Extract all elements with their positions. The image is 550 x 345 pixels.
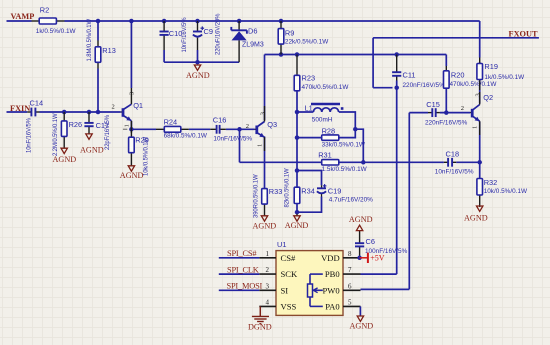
ground AGND under R34 xyxy=(285,216,309,230)
svg-text:PA0: PA0 xyxy=(325,302,340,312)
svg-text:390R/0.5%/0.1W: 390R/0.5%/0.1W xyxy=(254,174,260,218)
wire C15/PW0 vertical x=409.3 xyxy=(361,113,429,290)
capacitor C14 xyxy=(27,98,43,153)
svg-text:AGND: AGND xyxy=(349,215,373,224)
svg-text:10k/0.5%/0.1W: 10k/0.5%/0.1W xyxy=(143,137,149,176)
svg-text:C16: C16 xyxy=(213,115,227,124)
svg-text:AGND: AGND xyxy=(80,145,104,154)
svg-text:AGND: AGND xyxy=(350,321,374,330)
transistor Q3 xyxy=(246,106,277,151)
svg-text:5: 5 xyxy=(348,298,352,306)
node junctions on VAMP rail xyxy=(96,19,284,24)
potentiometer graphic inside U1 xyxy=(308,274,323,306)
svg-text:4: 4 xyxy=(266,298,270,306)
inductor L1 xyxy=(305,104,344,124)
ground AGND under C17 xyxy=(80,134,104,154)
svg-text:220nF/16V/5%: 220nF/16V/5% xyxy=(425,119,468,126)
svg-text:R24: R24 xyxy=(164,117,178,126)
wire jog to R31 row xyxy=(355,129,363,162)
svg-text:C19: C19 xyxy=(328,186,342,195)
svg-text:2: 2 xyxy=(461,105,464,112)
node junction R20 bottom xyxy=(444,110,449,115)
wire C11 bottom to PB0 (vertical x=396.7) xyxy=(361,81,397,275)
svg-text:R34: R34 xyxy=(301,187,315,196)
svg-text:33k/0.5%/0.1W: 33k/0.5%/0.1W xyxy=(322,141,366,148)
wire FXOUT net xyxy=(373,38,539,88)
node junction R34 bottom xyxy=(295,210,300,215)
svg-text:1: 1 xyxy=(123,124,130,127)
wire Q2 collector xyxy=(479,62,481,104)
ground AGND under R26 xyxy=(53,148,77,164)
wire SPI_CLK xyxy=(219,273,259,275)
resistor R31 xyxy=(318,150,367,173)
svg-text:R23: R23 xyxy=(302,74,316,83)
svg-text:470k/0.5%/0.1W: 470k/0.5%/0.1W xyxy=(450,81,498,88)
svg-text:SPI_CLK: SPI_CLK xyxy=(227,265,259,274)
wire R34 bottom xyxy=(296,204,298,214)
svg-text:DGND: DGND xyxy=(248,322,272,331)
transistor Q1 xyxy=(112,21,144,133)
port VAMP xyxy=(11,12,35,21)
svg-text:AGND: AGND xyxy=(253,221,277,230)
svg-text:500mH: 500mH xyxy=(312,116,333,123)
svg-text:1.8M/0.5%/0.1W: 1.8M/0.5%/0.1W xyxy=(87,19,93,62)
wire L1 left pin xyxy=(297,111,313,113)
svg-text:AGND: AGND xyxy=(120,171,144,180)
capacitor C19 (polarized) xyxy=(317,184,373,203)
wire R20 bottom pin xyxy=(445,88,447,112)
svg-text:C14: C14 xyxy=(30,98,44,107)
ground AGND under R33 xyxy=(253,216,277,231)
svg-text:220nF/16V/5%: 220nF/16V/5% xyxy=(403,82,446,89)
resistor R28 xyxy=(322,126,366,148)
wire C15 to Q2 base xyxy=(440,112,470,114)
pins U1 right (VDD,PB0,PW0,PA0) xyxy=(321,250,360,312)
svg-text:2: 2 xyxy=(246,123,249,130)
wire L1 right to R28 right xyxy=(339,112,356,138)
wire C19 top jog xyxy=(297,171,322,186)
svg-text:AGND: AGND xyxy=(464,213,488,222)
wire R28 left pin xyxy=(297,137,322,139)
wire rail to R19 (vertical x=479.7) xyxy=(479,21,481,58)
wire R31 right row to C18 xyxy=(339,161,444,163)
net label SPI_MOSI xyxy=(227,282,263,291)
node junction C16/Q3 base xyxy=(237,127,242,132)
svg-text:10nF/16V/5%: 10nF/16V/5% xyxy=(435,168,474,175)
wire Q1 emitter to R24/C16 row xyxy=(131,121,254,131)
svg-text:R33: R33 xyxy=(269,187,283,196)
capacitor C9 (polarized) xyxy=(193,13,221,62)
svg-text:SCK: SCK xyxy=(281,269,299,279)
svg-text:220uF/16V/20%: 220uF/16V/20% xyxy=(215,13,221,55)
svg-text:8: 8 xyxy=(348,250,352,258)
svg-text:1.5k/0.5%/0.1W: 1.5k/0.5%/0.1W xyxy=(322,166,368,173)
svg-text:3: 3 xyxy=(259,112,266,115)
wire R13 branch xyxy=(97,21,99,112)
svg-text:R28: R28 xyxy=(322,126,336,135)
svg-text:SPI_MOSI: SPI_MOSI xyxy=(227,282,263,291)
wire FXIN row xyxy=(7,111,121,113)
svg-text:R13: R13 xyxy=(102,46,116,55)
net label SPI_CLK xyxy=(227,265,259,274)
wire Q3 emitter branch xyxy=(264,137,266,189)
ground DGND at VSS xyxy=(248,306,272,331)
net label SPI_CS# xyxy=(227,249,257,258)
svg-text:U1: U1 xyxy=(277,240,286,249)
port FXIN xyxy=(10,104,30,113)
svg-text:10nF/16V/5%: 10nF/16V/5% xyxy=(27,117,33,153)
svg-text:FXOUT: FXOUT xyxy=(509,29,539,38)
svg-text:PW0: PW0 xyxy=(323,285,340,295)
svg-text:4.7uF/16V/20%: 4.7uF/16V/20% xyxy=(329,196,373,203)
svg-text:68k/0.5%/0.1W: 68k/0.5%/0.1W xyxy=(164,132,208,139)
svg-text:R19: R19 xyxy=(484,62,498,71)
resistor R20 xyxy=(444,66,498,88)
svg-text:2.2M/0.5%/0.1W: 2.2M/0.5%/0.1W xyxy=(53,113,59,156)
wire C18 to Q2 emitter xyxy=(456,161,480,163)
svg-text:3: 3 xyxy=(266,282,270,290)
svg-text:2: 2 xyxy=(266,266,270,274)
resistor R29 xyxy=(129,131,150,176)
node junction L1/R28 right xyxy=(353,127,358,132)
resistor R19 xyxy=(477,58,525,91)
capacitor C18 xyxy=(435,149,474,175)
wire cap ground rail xyxy=(164,61,239,63)
svg-text:6: 6 xyxy=(348,282,352,290)
node junction Q2 emitter row xyxy=(477,160,482,165)
node junction R31 right xyxy=(361,160,366,165)
svg-text:10nF/16V/5%: 10nF/16V/5% xyxy=(213,135,252,142)
svg-text:D6: D6 xyxy=(248,26,257,35)
svg-text:1k/0.5%/0.1W: 1k/0.5%/0.1W xyxy=(36,28,77,35)
resistor R9 xyxy=(278,21,329,55)
svg-text:10k/0.5%/0.1W: 10k/0.5%/0.1W xyxy=(484,188,528,195)
svg-text:L1: L1 xyxy=(305,104,313,113)
svg-text:AGND: AGND xyxy=(285,221,309,230)
capacitor C6 xyxy=(355,231,408,258)
wire VAMP top rail xyxy=(7,20,480,22)
svg-text:VAMP: VAMP xyxy=(11,12,35,21)
node junctions net A xyxy=(295,110,300,173)
svg-text:Q1: Q1 xyxy=(133,101,143,110)
op-amp U1 body xyxy=(276,240,343,315)
svg-text:PB0: PB0 xyxy=(325,269,340,279)
wire collector rail y=54.5 xyxy=(265,55,447,121)
wire SPI_MOSI xyxy=(219,289,259,291)
svg-text:82k/0.5%/0.1W: 82k/0.5%/0.1W xyxy=(285,168,291,207)
svg-text:AGND: AGND xyxy=(53,155,77,164)
svg-text:2: 2 xyxy=(112,104,115,111)
node junctions FXIN row xyxy=(62,110,100,115)
svg-text:C18: C18 xyxy=(446,149,460,158)
resistor R13 xyxy=(87,19,116,69)
wire C19 bottom jog xyxy=(297,197,322,213)
node junctions on y=54.5 rail xyxy=(279,52,399,57)
resistor R23 xyxy=(294,55,349,91)
svg-text:R20: R20 xyxy=(451,71,465,80)
svg-text:10nF/16V/5%: 10nF/16V/5% xyxy=(182,17,188,53)
node junction Q1 emitter xyxy=(129,127,134,132)
wire Q2 emitter down to R32 xyxy=(479,122,481,179)
wire mid vertical net A (R23/L1/R28/R34) xyxy=(296,91,298,187)
svg-text:C10: C10 xyxy=(169,29,183,38)
svg-text:VSS: VSS xyxy=(281,302,297,312)
svg-text:C6: C6 xyxy=(366,237,375,246)
capacitor C11 xyxy=(392,55,445,89)
svg-text:SPI_CS#: SPI_CS# xyxy=(227,249,257,258)
svg-text:R31: R31 xyxy=(318,150,332,159)
capacitor C17 xyxy=(84,112,110,150)
diode D6 zener ZL9M3 xyxy=(231,21,264,62)
resistor R32 xyxy=(477,178,528,207)
resistor R2 xyxy=(32,5,77,35)
capacitor C10 xyxy=(160,17,188,62)
svg-text:SI: SI xyxy=(281,285,289,295)
svg-text:Q2: Q2 xyxy=(483,93,493,102)
svg-text:470k/0.5%/0.1W: 470k/0.5%/0.1W xyxy=(302,84,350,91)
pins U1 left (CS#,SCK,SI,VSS) xyxy=(259,250,298,312)
wire C16 node down to base feedback row xyxy=(240,129,322,162)
svg-text:FXIN: FXIN xyxy=(10,104,30,113)
svg-text:Q3: Q3 xyxy=(267,120,277,129)
no-ERC stub xyxy=(123,128,127,130)
svg-text:1: 1 xyxy=(257,144,264,147)
svg-text:R32: R32 xyxy=(484,178,498,187)
svg-text:C11: C11 xyxy=(403,70,416,79)
svg-text:7: 7 xyxy=(348,266,352,274)
svg-text:VDD: VDD xyxy=(321,253,340,263)
resistor R24 xyxy=(156,117,208,139)
svg-text:C15: C15 xyxy=(426,100,440,109)
ground AGND above C6 xyxy=(349,215,373,231)
svg-text:R2: R2 xyxy=(40,5,49,14)
resistor R26 xyxy=(53,112,82,156)
svg-text:1: 1 xyxy=(472,126,479,129)
svg-text:R26: R26 xyxy=(69,120,83,129)
ground AGND at PA0 xyxy=(350,306,374,330)
node junction C11 bottom xyxy=(394,85,399,90)
svg-text:1: 1 xyxy=(266,250,270,258)
wire SPI_CS# xyxy=(219,257,259,259)
svg-text:ZL9M3: ZL9M3 xyxy=(242,42,264,49)
capacitor C16 xyxy=(210,115,252,142)
resistor R34 xyxy=(285,168,315,216)
svg-text:3: 3 xyxy=(129,92,136,95)
node junction VDD/C6 xyxy=(357,256,362,261)
svg-text:CS#: CS# xyxy=(281,253,297,263)
svg-text:R9: R9 xyxy=(285,28,294,37)
svg-text:AGND: AGND xyxy=(186,71,210,80)
ground AGND under R29 xyxy=(120,166,144,180)
svg-text:1k/0.5%/0.1W: 1k/0.5%/0.1W xyxy=(484,74,525,81)
port FXOUT xyxy=(509,29,539,38)
svg-text:C9: C9 xyxy=(204,27,213,36)
svg-text:+5V: +5V xyxy=(370,254,385,263)
node junction C9 bottom xyxy=(195,60,200,64)
capacitor C15 xyxy=(425,100,468,127)
power +5V xyxy=(360,253,385,263)
svg-text:22k/0.5%/0.1W: 22k/0.5%/0.1W xyxy=(285,39,329,46)
ground AGND under C9 xyxy=(186,65,210,80)
ground AGND under R32 xyxy=(464,206,488,222)
svg-text:22pF/16V/5%: 22pF/16V/5% xyxy=(105,114,111,150)
svg-text:3: 3 xyxy=(475,93,482,96)
resistor R33 xyxy=(254,174,283,218)
transistor Q2 xyxy=(461,92,493,135)
